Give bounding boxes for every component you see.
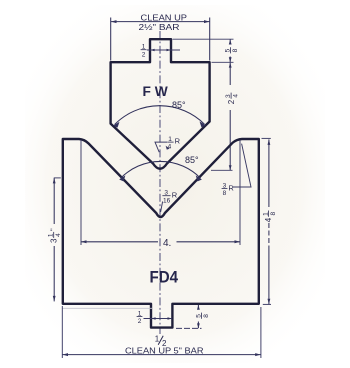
svg-text:16: 16: [163, 197, 171, 204]
svg-text:4: 4: [233, 94, 240, 98]
bottom tang width arrowheads: [151, 317, 155, 319]
svg-text:4: 4: [264, 217, 273, 222]
bottom clean-up: right extension line: [260, 307, 262, 358]
svg-text:F W: F W: [143, 84, 169, 99]
svg-text:8: 8: [270, 212, 277, 216]
5/8 label (rotated): [224, 47, 239, 53]
svg-text:2: 2: [138, 318, 142, 325]
2-3/4 label (rotated): [225, 93, 240, 105]
svg-text:R: R: [172, 191, 178, 200]
svg-text:CLEAN UP 5" BAR: CLEAN UP 5" BAR: [125, 345, 204, 355]
top dimension extension line left: [110, 18, 112, 61]
svg-text:8: 8: [232, 48, 239, 52]
svg-text:85°: 85°: [172, 100, 186, 110]
quarter-R leader arrowhead: [166, 146, 170, 150]
die FD4 outline: [63, 139, 259, 328]
extension line from punch shoulder to dims: [212, 61, 234, 63]
svg-text:R: R: [175, 137, 181, 146]
4-1/8 dimension line: [268, 139, 270, 207]
3/16-R die vee radius label: [162, 190, 177, 205]
3/16-R leader line: [161, 202, 163, 213]
top dim right arrowhead: [204, 20, 210, 23]
punch arc left arrowhead: [113, 122, 119, 128]
3/8-R shoulder radius label: [222, 183, 235, 198]
4-inch vee opening dimension: left extension line: [80, 140, 82, 245]
3-1/4 top stub: [54, 177, 61, 179]
4-1/8 right height dimension: top stub: [262, 137, 271, 139]
die 85-degree arc: [121, 161, 201, 178]
5/8 dimension line (right of tang): [229, 40, 231, 45]
tang width dim line: [147, 49, 180, 51]
4-inch right extension line: [239, 140, 241, 245]
bottom clean-up: left extension line: [61, 306, 63, 358]
punch arc right arrowhead: [200, 121, 206, 127]
svg-text:85°: 85°: [185, 155, 199, 165]
die arc right arrowhead: [196, 175, 202, 181]
bottom tang width half-inch dimension: [137, 310, 143, 325]
svg-text:3: 3: [49, 238, 58, 243]
half-inch label below tang: [155, 335, 167, 348]
4-inch arrowheads: [81, 240, 87, 243]
punch tang half-inch width dimension: [141, 44, 147, 59]
3-1/4 label (rotated): [48, 228, 63, 243]
quarter-R tip radius label: [167, 136, 180, 151]
top dim left arrowhead: [111, 20, 117, 23]
tang bottom extension line to right: [176, 327, 202, 329]
2-3/4 dimension line (right of punch): [229, 63, 231, 85]
4-1/8 label (rotated): [262, 211, 277, 223]
3-1/4 left height dimension line: [53, 178, 55, 224]
svg-text:2: 2: [142, 51, 146, 58]
5/8 tang depth dimension line: [197, 305, 199, 310]
top dimension extension line right: [209, 18, 211, 61]
bottom tang width dim line: [144, 318, 172, 320]
svg-text:FD4: FD4: [150, 268, 179, 286]
tang width arrowheads: [150, 49, 154, 51]
faint scan ghost line below die bottom: [62, 307, 152, 309]
die arc left arrowhead: [119, 175, 125, 181]
4-1/8 bottom stub: [263, 303, 271, 305]
svg-text:1: 1: [155, 335, 160, 344]
quarter-R leader line: [155, 142, 167, 152]
punch 85-degree arc: [115, 106, 205, 125]
bottom clean-up dimension line: [63, 354, 261, 356]
extension line from tang top to 5/8 dim: [173, 38, 234, 40]
punch FW outline: [111, 39, 210, 169]
svg-text:8: 8: [223, 190, 227, 197]
extension line at punch tip level: [211, 169, 233, 171]
top dimension line: [111, 21, 210, 23]
svg-text:4: 4: [55, 233, 62, 237]
svg-text:CLEAN UP: CLEAN UP: [141, 12, 188, 22]
svg-text:2½" BAR: 2½" BAR: [139, 22, 180, 32]
svg-text:8: 8: [203, 314, 210, 318]
svg-text:2: 2: [227, 99, 236, 104]
svg-text:4.: 4.: [163, 238, 171, 249]
4-inch dimension line: [81, 241, 158, 243]
centerline of punch and die (vertical dash-dot): [159, 31, 161, 334]
svg-text:4: 4: [168, 144, 172, 151]
5/8 tang depth label (rotated): [196, 313, 211, 319]
svg-text:R: R: [228, 184, 234, 193]
3/8-R leader line: [233, 144, 251, 187]
